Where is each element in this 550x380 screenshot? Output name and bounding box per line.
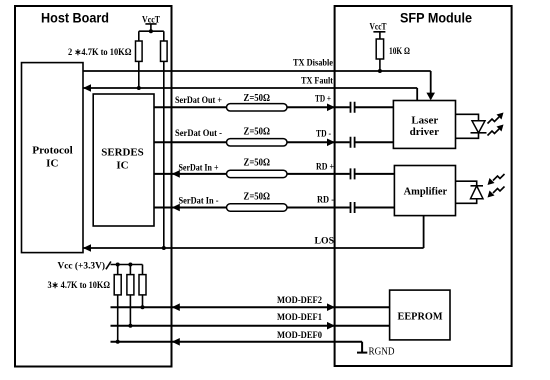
protocol IC box <box>22 63 84 253</box>
wire LOS <box>83 216 424 248</box>
svg-text:RD -: RD - <box>317 195 334 205</box>
wire MOD-DEF0 <box>111 342 363 353</box>
photodiode stubs <box>456 181 477 203</box>
laser diode stubs <box>456 114 479 138</box>
svg-text:TX Disable: TX Disable <box>293 58 333 68</box>
wire VccT rail <box>139 30 164 32</box>
svg-text:Z=50Ω: Z=50Ω <box>244 158 271 169</box>
svg-text:VccT: VccT <box>370 21 387 31</box>
transmission line Z3 <box>227 170 288 177</box>
svg-text:EEPROM: EEPROM <box>398 311 444 323</box>
node R1 MOD-DEF0 <box>116 340 120 344</box>
EEPROM box <box>390 290 450 340</box>
capacitor C2 <box>351 137 355 148</box>
svg-text:10K Ω: 10K Ω <box>389 46 410 56</box>
wire RD- line <box>154 207 394 209</box>
svg-text:SFP Module: SFP Module <box>400 10 472 26</box>
svg-text:TD -: TD - <box>316 129 331 139</box>
light arrow out 1 <box>488 117 500 124</box>
resistor R1 (MOD-DEF0 pullup) <box>114 275 121 295</box>
arrow TD- into SFP <box>327 139 335 147</box>
svg-text:VccT: VccT <box>142 14 160 24</box>
svg-text:IC: IC <box>46 158 58 170</box>
node VccT junction <box>149 29 153 33</box>
wire RD+ line <box>154 173 394 175</box>
laser diode LED symbol <box>472 121 485 133</box>
node 10K / TX Disable junction <box>378 69 382 73</box>
light arrow in 1 <box>493 174 505 181</box>
svg-text:RGND: RGND <box>369 347 395 358</box>
wire R-A down to TX Fault <box>138 61 140 88</box>
arrow RD- into host <box>172 204 180 212</box>
wire MOD-DEF1 <box>111 325 390 327</box>
arrow RD+ into host <box>172 170 180 178</box>
svg-text:RD +: RD + <box>316 162 334 172</box>
resistor 10K SFP <box>376 39 383 59</box>
wire R3 down <box>142 295 144 307</box>
wire R-B down to LOS <box>163 61 165 248</box>
light arrow in 2 <box>493 187 505 194</box>
svg-text:Laser: Laser <box>411 114 438 126</box>
capacitor C1 <box>351 102 355 113</box>
svg-text:SerDat In +: SerDat In + <box>179 162 219 172</box>
VccT SFP supply T symbol <box>373 32 385 39</box>
svg-text:Vcc (+3.3V): Vcc (+3.3V) <box>58 261 106 271</box>
node R3 MOD-DEF2 <box>141 305 145 309</box>
svg-text:LOS: LOS <box>315 235 335 245</box>
svg-text:IC: IC <box>116 160 128 172</box>
arrow MOD-DEF2 left <box>172 303 180 311</box>
resistor R3 (MOD-DEF2 pullup) <box>139 275 146 295</box>
svg-text:SERDES: SERDES <box>101 147 144 159</box>
capacitor C4 <box>351 202 355 213</box>
wire MOD-DEF2 <box>111 306 390 308</box>
wire 10K to TX Disable <box>379 59 381 71</box>
svg-text:Host Board: Host Board <box>41 10 109 26</box>
arrow TX Disable into laser driver <box>426 93 435 101</box>
wire TX Fault <box>83 88 417 101</box>
SERDES IC box <box>93 94 154 226</box>
photodiode symbol <box>471 186 484 199</box>
amplifier U-AMP box <box>394 166 455 216</box>
transmission line Z2 <box>227 139 288 146</box>
svg-text:Z=50Ω: Z=50Ω <box>244 93 271 104</box>
svg-text:SerDat In -: SerDat In - <box>179 196 219 206</box>
laser diode cathode bar <box>471 132 487 134</box>
svg-text:TD +: TD + <box>315 94 331 104</box>
VccT host supply T symbol <box>145 24 156 31</box>
svg-text:MOD-DEF2: MOD-DEF2 <box>277 295 322 305</box>
svg-text:SerDat Out -: SerDat Out - <box>175 128 222 138</box>
laser driver U-LD box <box>393 101 455 149</box>
svg-text:MOD-DEF0: MOD-DEF0 <box>277 330 322 340</box>
svg-text:TX Fault: TX Fault <box>301 76 333 86</box>
Vcc supply slash <box>106 262 111 270</box>
wire TD- line <box>154 141 393 143</box>
wire rail to resistor tops <box>118 265 143 275</box>
wire R1 down <box>117 295 119 342</box>
resistor R-A (TX Fault pullup) <box>136 41 143 61</box>
resistor R2 (MOD-DEF1 pullup) <box>127 275 134 295</box>
photodiode cathode bar <box>471 185 484 187</box>
capacitor C3 <box>351 168 355 179</box>
arrow MOD-DEF1 right <box>327 322 335 330</box>
svg-text:Z=50Ω: Z=50Ω <box>244 126 271 137</box>
wire TD+ line <box>154 106 393 108</box>
wire resistor top stubs <box>139 31 164 41</box>
svg-text:2 ∗4.7K to 10KΩ: 2 ∗4.7K to 10KΩ <box>68 47 132 57</box>
resistor R-B (LOS pullup) <box>161 41 168 61</box>
svg-text:3∗ 4.7K to 10KΩ: 3∗ 4.7K to 10KΩ <box>48 280 111 290</box>
transmission line Z1 <box>227 104 288 111</box>
arrow LOS into protocol IC <box>83 244 91 252</box>
wire R2 down <box>129 295 131 326</box>
ground RGND symbol <box>357 352 367 354</box>
host board box <box>15 6 172 367</box>
svg-text:Z=50Ω: Z=50Ω <box>244 192 271 203</box>
light arrow out 2 <box>488 129 500 136</box>
svg-text:SerDat Out +: SerDat Out + <box>175 95 222 105</box>
node R-B / LOS junction <box>162 246 166 250</box>
SFP module box <box>335 6 512 366</box>
arrow TD+ into SFP <box>327 104 335 112</box>
wire Vcc rail <box>111 264 143 266</box>
svg-text:Protocol: Protocol <box>32 145 73 157</box>
arrow MOD-DEF0 left <box>172 338 180 346</box>
node R-A / TX Fault junction <box>137 86 141 90</box>
node R2 MOD-DEF1 <box>128 324 132 328</box>
transmission line Z4 <box>227 204 288 211</box>
svg-text:Amplifier: Amplifier <box>404 186 448 198</box>
arrow TX Fault into protocol IC <box>83 84 91 92</box>
svg-text:driver: driver <box>410 126 439 138</box>
node rail R2 <box>128 263 132 267</box>
wire TX Disable <box>83 71 431 99</box>
arrow MOD-DEF2 right <box>327 303 335 311</box>
node rail R1 <box>116 263 120 267</box>
svg-text:MOD-DEF1: MOD-DEF1 <box>277 312 322 322</box>
